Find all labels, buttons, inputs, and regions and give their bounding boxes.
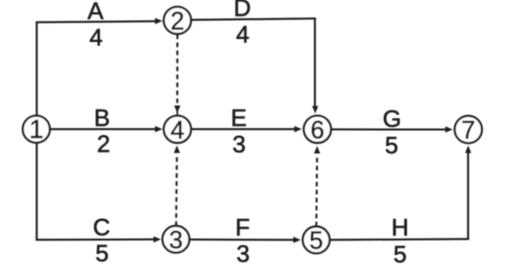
svg-text:G: G [383,106,402,133]
svg-text:2: 2 [97,131,110,158]
arrowhead of edge E into node 6 [294,126,302,132]
svg-text:C: C [93,215,110,242]
arrowhead of edge G into node 7 [445,126,453,132]
svg-text:1: 1 [29,114,43,144]
wire: edge H riser up into node 7 [467,151,469,240]
wire: edge C horizontal run into node 3 [36,238,155,240]
dashed dummy arrow from node 5 up to node 6 [315,156,318,227]
arrowhead of edge A into node 2 [155,18,163,24]
arrowhead of dummy 2-4 (pointing down) [174,106,180,114]
arrowhead of edge D into node 6 [312,106,318,114]
svg-text:F: F [235,215,250,242]
svg-text:5: 5 [393,242,406,269]
svg-text:D: D [234,0,251,22]
svg-text:6: 6 [310,116,324,144]
svg-text:A: A [87,0,103,25]
svg-text:4: 4 [170,116,184,144]
svg-text:3: 3 [232,132,245,159]
svg-text:B: B [94,105,110,132]
arrowhead of edge B into node 4 [155,126,163,132]
arrowhead of dummy 3-4 (pointing up) [174,146,180,154]
dashed dummy arrow from node 2 down to node 4 [176,35,178,104]
arrowhead of edge C into node 3 [154,236,162,242]
arrowhead of edge F into node 5 [293,237,301,243]
wire: edge E from node 4 to node 6 [191,128,296,130]
svg-text:3: 3 [169,226,183,254]
svg-text:7: 7 [461,117,475,145]
node 4 [164,116,191,143]
arrowhead of dummy 5-6 (pointing up) [314,146,320,154]
wire: stub below dummy 2-4 arrowhead [176,110,178,116]
svg-text:2: 2 [170,7,184,35]
wire: edge D horizontal run from node 2 [191,19,316,20]
node 2 [164,7,191,34]
wire: edge C drop from node 1 to bottom-left corner [36,143,38,240]
node 5 [303,227,330,254]
svg-text:H: H [391,215,408,242]
svg-text:5: 5 [385,133,398,160]
arrowhead of edge H into node 7 [465,146,471,154]
node 7 [455,116,482,143]
svg-text:4: 4 [89,25,102,52]
dashed dummy arrow from node 3 up to node 4 [175,155,178,226]
wire: edge H horizontal run from node 5 [330,238,470,241]
svg-text:3: 3 [236,241,249,268]
node 6 [304,116,331,143]
wire: edge A riser from node 1 up to top-left corner [36,22,38,116]
wire: edge G from node 6 to node 7 [331,128,447,130]
wire: edge F from node 3 to node 5 [189,239,295,241]
svg-text:E: E [231,105,247,132]
node 3 [163,226,190,253]
wire: edge A horizontal run into node 2 [36,21,157,22]
node 1 [23,116,50,143]
wire: edge D drop into node 6 [314,18,316,109]
svg-text:5: 5 [309,227,323,255]
svg-text:5: 5 [95,241,108,268]
wire: edge B from node 1 to node 4 [50,128,157,130]
svg-text:4: 4 [236,22,249,49]
